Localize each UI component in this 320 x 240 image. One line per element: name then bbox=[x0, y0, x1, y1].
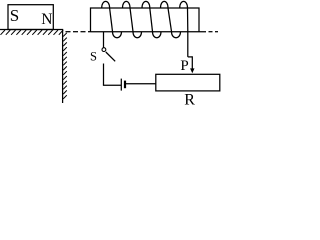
magnet bar bbox=[8, 5, 53, 30]
coil winding diagonal 4 bbox=[168, 8, 172, 32]
rheostat box R bbox=[156, 74, 220, 91]
dashed axis line (right of coil) bbox=[209, 31, 219, 33]
coil core rectangle bbox=[91, 8, 200, 32]
tabletop hatching bbox=[1, 30, 64, 35]
coil bottom arc 3 bbox=[153, 32, 162, 38]
tabletop line bbox=[0, 29, 63, 31]
lower switch lead wire bbox=[103, 64, 105, 86]
left lead wire down to switch bbox=[103, 32, 105, 48]
dashed axis line (left of coil) bbox=[66, 31, 91, 33]
svg-text:P: P bbox=[180, 58, 188, 74]
coil bottom arc 4 bbox=[172, 32, 181, 38]
coil top arc 3 bbox=[142, 1, 150, 8]
coil winding diagonal 1 bbox=[110, 8, 113, 32]
coil bottom arc 2 bbox=[133, 32, 142, 38]
wall hatching bbox=[63, 33, 67, 99]
coil top arc 5 bbox=[180, 1, 188, 8]
switch blade (open) bbox=[106, 52, 115, 61]
battery long plate (+) bbox=[120, 79, 122, 91]
switch contact circle bbox=[102, 48, 106, 52]
battery short plate (-) bbox=[124, 81, 126, 89]
coil bottom arc 1 bbox=[113, 32, 122, 38]
wiper jog wire bbox=[188, 56, 193, 58]
coil top arc 4 bbox=[161, 1, 169, 8]
svg-text:S: S bbox=[10, 6, 19, 25]
coil top arc 2 bbox=[123, 1, 131, 8]
bottom wire to battery bbox=[103, 84, 121, 86]
right lead wire down from coil bbox=[187, 32, 189, 57]
svg-text:N: N bbox=[41, 11, 52, 28]
wiper arrowhead bbox=[190, 68, 194, 73]
coil top arc 1 bbox=[102, 1, 110, 8]
svg-text:S: S bbox=[90, 49, 97, 63]
coil core bottom edge with right extension bbox=[91, 31, 207, 33]
coil winding diagonal 2 bbox=[130, 8, 133, 32]
coil winding diagonal 5 / start of right lead bbox=[187, 8, 189, 32]
coil winding diagonal 3 bbox=[150, 8, 153, 32]
wire battery to rheostat bbox=[125, 83, 156, 85]
table edge (wall) line bbox=[62, 30, 64, 104]
svg-text:R: R bbox=[184, 92, 195, 108]
wiper wire down bbox=[191, 56, 193, 69]
